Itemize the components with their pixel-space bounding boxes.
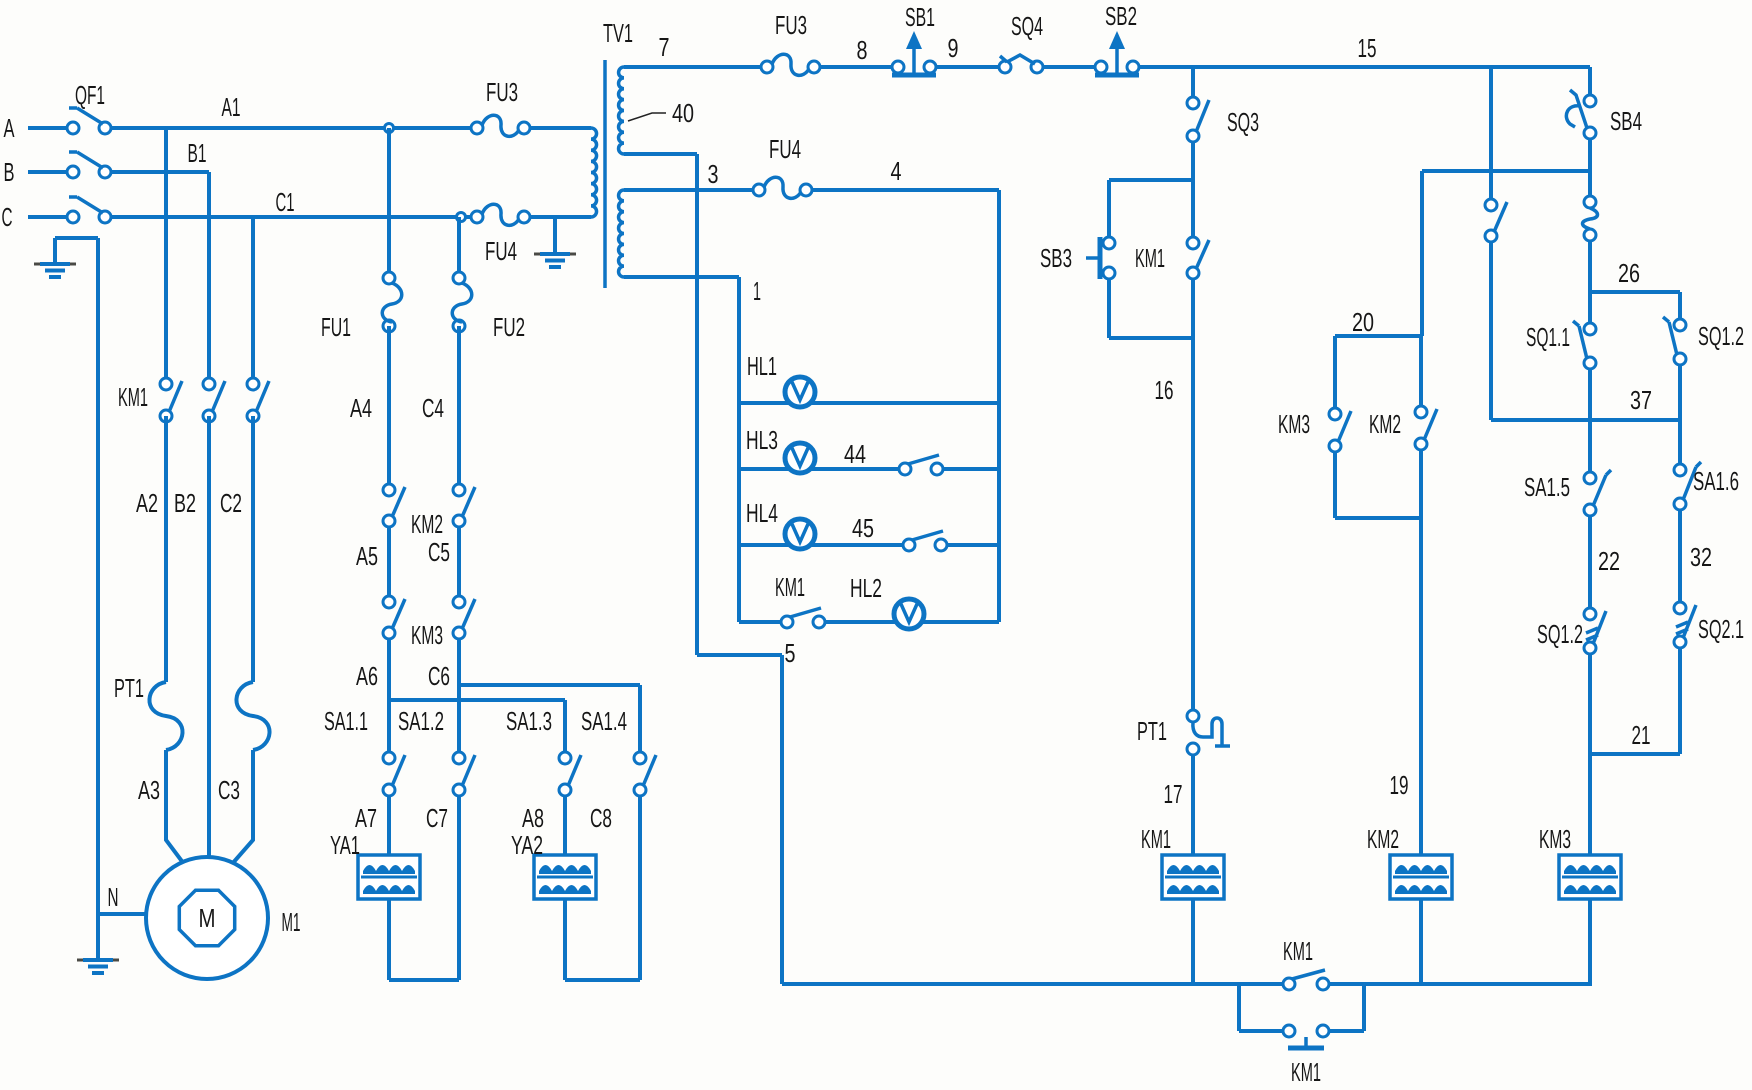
lamp HL4 — [785, 519, 815, 549]
wire 32 — [1678, 510, 1682, 602]
svg-text:N: N — [108, 882, 119, 912]
svg-text:16: 16 — [1155, 375, 1174, 405]
svg-text:FU2: FU2 — [493, 312, 525, 342]
svg-text:8: 8 — [857, 35, 868, 65]
wire SB3 branch bottom — [1109, 279, 1193, 338]
svg-text:SA1.1: SA1.1 — [324, 706, 368, 736]
svg-text:7: 7 — [659, 32, 670, 62]
limit switch SQ1.1 — [1573, 321, 1596, 369]
limit switch SQ3 — [1187, 97, 1209, 142]
svg-text:4: 4 — [891, 156, 902, 186]
svg-text:A2: A2 — [136, 488, 158, 518]
svg-text:C8: C8 — [590, 803, 612, 833]
svg-text:SQ3: SQ3 — [1227, 107, 1259, 137]
svg-text:SQ1.2: SQ1.2 — [1537, 619, 1583, 649]
svg-text:SA1.3: SA1.3 — [506, 706, 552, 736]
transformer TV1 core — [603, 60, 607, 288]
wire N to motor — [98, 912, 146, 916]
svg-text:C5: C5 — [428, 537, 450, 567]
svg-text:SA1.4: SA1.4 — [581, 706, 627, 736]
wire SQ1.2 to SA1.6 — [1678, 365, 1682, 464]
node C1/FU2 tap — [457, 213, 466, 222]
contactor KM1 aux contact (rail) — [1283, 970, 1329, 990]
node A1/FU1 tap — [385, 124, 394, 133]
wire A5 — [387, 527, 391, 596]
wire 19 — [1419, 450, 1423, 855]
thermal relay PT1 contact — [1187, 710, 1230, 755]
svg-text:KM3: KM3 — [1539, 824, 1571, 854]
svg-text:KM2: KM2 — [411, 509, 443, 539]
pushbutton SB1 — [892, 31, 936, 75]
wire C6 — [457, 639, 461, 752]
svg-text:SQ1.2: SQ1.2 — [1698, 321, 1744, 351]
switch SA1.2 — [453, 752, 475, 796]
wire C7 — [457, 796, 461, 980]
wire B1 — [111, 170, 209, 174]
switch SA1.4 — [634, 752, 656, 796]
lamp HL1 — [785, 377, 815, 407]
wire C1 to FU2 — [457, 217, 461, 272]
wire 17 — [1191, 755, 1195, 855]
svg-text:PT1: PT1 — [1137, 716, 1167, 746]
lamp HL3 — [785, 443, 815, 473]
wire KM3 coil to rail — [1588, 899, 1592, 984]
wire KM1 coil to rail — [1191, 899, 1195, 984]
wire HL4 row — [739, 543, 999, 547]
svg-text:SQ1.1: SQ1.1 — [1526, 322, 1570, 352]
wire TV1 ground stem — [553, 217, 557, 253]
svg-text:KM2: KM2 — [1369, 409, 1401, 439]
wire to line 37 — [1489, 242, 1493, 420]
wire C1 — [111, 215, 471, 219]
wire 16 — [1191, 279, 1195, 710]
svg-text:B1: B1 — [188, 138, 207, 168]
svg-text:C: C — [2, 202, 13, 232]
ground at TV1 primary — [534, 254, 576, 267]
wire SB4 to contact — [1588, 139, 1592, 196]
leader line to tap 40 — [628, 113, 666, 121]
svg-text:SB1: SB1 — [905, 2, 935, 32]
wire 1 — [624, 275, 739, 279]
wire 20 box top — [1335, 334, 1422, 338]
svg-text:A4: A4 — [350, 393, 372, 423]
limit switch SQ1.2 (upper) — [1663, 317, 1686, 365]
switch SA1.3 — [559, 752, 581, 796]
wire A1 — [111, 126, 471, 130]
wire FU4 to TV1 primary — [529, 215, 591, 219]
svg-text:45: 45 — [852, 513, 874, 543]
svg-text:YA2: YA2 — [511, 830, 543, 860]
wire 15 — [1139, 65, 1590, 69]
svg-text:B: B — [4, 157, 15, 187]
switch contact 45 — [903, 531, 947, 551]
wire KM1 bypass branch right — [1329, 984, 1364, 1031]
svg-text:22: 22 — [1598, 546, 1620, 576]
wire C phase drop — [251, 217, 255, 384]
wire C8 — [638, 796, 642, 980]
transformer TV1 primary winding — [591, 128, 597, 217]
svg-text:C3: C3 — [218, 775, 240, 805]
contactor KM1 main contact pole B — [203, 378, 225, 422]
svg-text:M1: M1 — [282, 907, 301, 937]
wire 21 — [1590, 752, 1680, 756]
switch contact 44 — [899, 455, 943, 475]
svg-text:40: 40 — [672, 98, 694, 128]
ground at supply PEN — [34, 264, 76, 277]
wire HL1 row — [739, 401, 999, 405]
wire B2 — [207, 416, 211, 858]
wire secondary2 to FU4 — [624, 188, 753, 192]
wire A1 to FU1 — [387, 128, 391, 272]
svg-text:A6: A6 — [356, 661, 378, 691]
contactor aux contact (column 15) — [1485, 199, 1507, 242]
svg-text:SA1.5: SA1.5 — [1524, 472, 1570, 502]
svg-text:A3: A3 — [138, 775, 160, 805]
svg-text:SA1.2: SA1.2 — [398, 706, 444, 736]
wire HL3 row — [739, 467, 999, 471]
wire HL2 row — [739, 620, 999, 624]
wire A8 — [563, 796, 567, 855]
svg-text:20: 20 — [1352, 307, 1374, 337]
svg-text:KM1: KM1 — [1291, 1057, 1321, 1087]
svg-text:3: 3 — [708, 159, 719, 189]
limit switch SQ1.2 (lower) — [1584, 608, 1606, 654]
contactor KM2 aux contact — [1415, 406, 1437, 450]
wire 3 drop — [624, 154, 697, 655]
contactor KM2 contact (C side) — [453, 484, 475, 527]
thermal relay PT1 heater element phase C — [236, 682, 269, 750]
svg-text:C6: C6 — [428, 661, 450, 691]
solenoid coil YA2 — [534, 855, 596, 899]
wire 22 — [1588, 516, 1592, 608]
wire PEN bus — [55, 238, 98, 263]
fuse FU3 (power) — [471, 115, 530, 136]
svg-text:SQ4: SQ4 — [1011, 11, 1043, 41]
wire 7 — [624, 65, 761, 69]
svg-text:SB2: SB2 — [1105, 1, 1137, 31]
circuit breaker QF1 pole C — [67, 197, 111, 223]
contactor coil KM1 — [1162, 855, 1224, 899]
wire FU3 to TV1 primary — [530, 126, 591, 130]
svg-text:26: 26 — [1618, 258, 1640, 288]
wire 15 corner to SB4 — [1588, 67, 1592, 95]
transformer TV1 secondary winding 1 — [619, 67, 624, 154]
svg-text:SA1.6: SA1.6 — [1693, 466, 1739, 496]
svg-text:A: A — [4, 113, 15, 143]
wire B phase drop — [207, 172, 211, 384]
wire 15 drop at 1491 — [1489, 67, 1493, 199]
svg-text:KM3: KM3 — [1278, 409, 1310, 439]
svg-text:FU4: FU4 — [485, 236, 517, 266]
wire phase A stub — [28, 126, 67, 130]
wire bottom rail left — [782, 982, 1283, 986]
svg-text:1: 1 — [753, 276, 761, 306]
wire 26 column — [1588, 241, 1592, 323]
contactor KM1 main contact pole A — [160, 378, 182, 422]
svg-text:FU4: FU4 — [769, 134, 801, 164]
svg-text:PT1: PT1 — [114, 673, 144, 703]
wire YA1 return — [389, 899, 459, 980]
wire A3 to motor — [166, 750, 184, 864]
svg-text:5: 5 — [785, 638, 796, 668]
svg-text:M: M — [199, 903, 216, 933]
svg-text:KM3: KM3 — [411, 620, 443, 650]
contactor KM3 aux contact — [1329, 408, 1351, 452]
wire KM1 bypass branch left — [1239, 984, 1283, 1031]
svg-text:A1: A1 — [222, 92, 241, 122]
ground at motor — [77, 960, 119, 973]
wire A6 branch to SA1.3 — [389, 700, 565, 752]
wire SB3 branch top — [1109, 178, 1193, 182]
svg-text:KM1: KM1 — [1283, 936, 1313, 966]
wire SQ1.1 to SA1.5 — [1588, 369, 1592, 472]
wire 21 column right — [1678, 648, 1682, 754]
pushbutton SB4 — [1566, 90, 1596, 139]
contactor KM3 contact (C side) — [453, 596, 475, 639]
switch SA1.6 — [1674, 462, 1701, 510]
svg-text:HL3: HL3 — [746, 425, 778, 455]
svg-text:32: 32 — [1690, 542, 1712, 572]
wire A4 — [387, 326, 391, 484]
wire 4 — [812, 188, 999, 192]
wire C3 to motor — [232, 750, 253, 864]
wire lamp panel right rail — [997, 190, 1001, 622]
svg-text:HL2: HL2 — [850, 573, 882, 603]
lamp HL2 — [894, 599, 924, 629]
svg-text:A8: A8 — [522, 803, 544, 833]
wire 37 — [1491, 418, 1680, 422]
svg-text:21: 21 — [1632, 720, 1651, 750]
svg-text:SQ2.1: SQ2.1 — [1698, 614, 1744, 644]
wire 20 drop — [1420, 171, 1424, 336]
circuit breaker QF1 pole B — [67, 152, 111, 178]
wire to KM3 contact — [1333, 336, 1337, 408]
svg-text:9: 9 — [948, 33, 959, 63]
pushbutton SB2 — [1095, 31, 1139, 75]
svg-text:QF1: QF1 — [75, 80, 105, 110]
wire SQ4 to SB2 — [1043, 65, 1095, 69]
svg-text:15: 15 — [1358, 33, 1377, 63]
wire A6 — [387, 639, 391, 752]
wire 5 drop — [697, 655, 782, 984]
svg-text:KM2: KM2 — [1367, 824, 1399, 854]
wire bottom rail right — [1329, 982, 1592, 986]
svg-text:HL1: HL1 — [747, 351, 777, 381]
svg-text:17: 17 — [1164, 779, 1183, 809]
wire KM2 coil to rail — [1419, 899, 1423, 984]
svg-text:C7: C7 — [426, 803, 448, 833]
contactor KM1 main contact pole C — [247, 378, 269, 422]
svg-text:37: 37 — [1630, 385, 1652, 415]
switch SA1.1 — [383, 752, 405, 796]
wire A2 — [164, 416, 168, 682]
wire C6 branch to SA1.4 — [459, 685, 640, 752]
motor M1 — [146, 857, 268, 979]
wire KM box bottom — [1335, 452, 1421, 518]
pushbutton KM1 (bypass) — [1283, 1025, 1329, 1048]
wire A7 — [387, 796, 391, 855]
wire 21 column left — [1588, 654, 1592, 855]
wire C2 — [251, 416, 255, 682]
switch SA1.5 — [1584, 470, 1611, 516]
wire SB4 junction to KM box — [1422, 169, 1590, 173]
contactor KM1 aux contact (lamp row) — [781, 608, 825, 628]
wire phase B stub — [28, 170, 67, 174]
thermal relay PT1 heater element phase A — [149, 682, 182, 750]
svg-text:TV1: TV1 — [603, 18, 633, 48]
svg-text:SB4: SB4 — [1610, 106, 1642, 136]
svg-text:A5: A5 — [356, 541, 378, 571]
svg-text:FU3: FU3 — [775, 10, 807, 40]
fuse FU1 — [382, 272, 402, 332]
contactor KM3 contact (A side) — [383, 596, 405, 639]
contactor coil KM2 — [1390, 855, 1452, 899]
wire 9 — [936, 65, 999, 69]
fuse FU4 (control) — [753, 177, 812, 198]
circuit breaker QF1 pole A — [67, 108, 111, 134]
svg-text:FU3: FU3 — [486, 77, 518, 107]
wire 15 to SQ3 — [1191, 67, 1195, 97]
wire A phase drop — [164, 128, 168, 384]
fuse FU3 (control) — [761, 54, 820, 75]
svg-text:C4: C4 — [422, 393, 444, 423]
wire SQ3 to KM1 aux — [1191, 142, 1195, 237]
svg-text:FU1: FU1 — [321, 312, 351, 342]
wire to SB3 — [1107, 180, 1111, 237]
contactor KM1 aux contact (seal-in) — [1187, 237, 1209, 279]
wire lamp panel left rail — [737, 277, 741, 622]
wire C5 — [457, 527, 461, 596]
svg-text:YA1: YA1 — [330, 830, 360, 860]
wire YA2 return — [565, 899, 640, 980]
fuse FU2 — [452, 272, 472, 332]
wire 26 branch — [1590, 292, 1680, 319]
wire to KM2 contact — [1419, 336, 1423, 406]
svg-text:19: 19 — [1390, 770, 1409, 800]
svg-text:SB3: SB3 — [1040, 243, 1072, 273]
switch contact (slow-release) — [1583, 196, 1598, 241]
limit switch SQ4 — [999, 55, 1043, 73]
transformer TV1 secondary winding 2 — [619, 190, 624, 277]
solenoid coil YA1 — [358, 855, 420, 899]
svg-text:HL4: HL4 — [746, 498, 778, 528]
pushbutton SB3 — [1086, 237, 1115, 279]
wire N conductor — [96, 238, 100, 914]
svg-text:KM1: KM1 — [118, 382, 148, 412]
svg-text:B2: B2 — [174, 488, 196, 518]
svg-text:KM1: KM1 — [1141, 824, 1171, 854]
wire C4 — [457, 326, 461, 484]
contactor coil KM3 — [1559, 855, 1621, 899]
contactor KM2 contact (A side) — [383, 484, 405, 527]
svg-text:KM1: KM1 — [775, 572, 805, 602]
svg-text:KM1: KM1 — [1135, 243, 1165, 273]
limit switch SQ2.1 — [1674, 602, 1696, 648]
fuse FU4 (power) — [471, 204, 530, 225]
svg-text:44: 44 — [844, 439, 866, 469]
wire phase C stub — [28, 215, 67, 219]
svg-text:C2: C2 — [220, 488, 242, 518]
wire 8 — [820, 65, 892, 69]
svg-text:C1: C1 — [276, 187, 295, 217]
wire motor ground stem — [96, 914, 100, 959]
svg-text:A7: A7 — [355, 803, 377, 833]
